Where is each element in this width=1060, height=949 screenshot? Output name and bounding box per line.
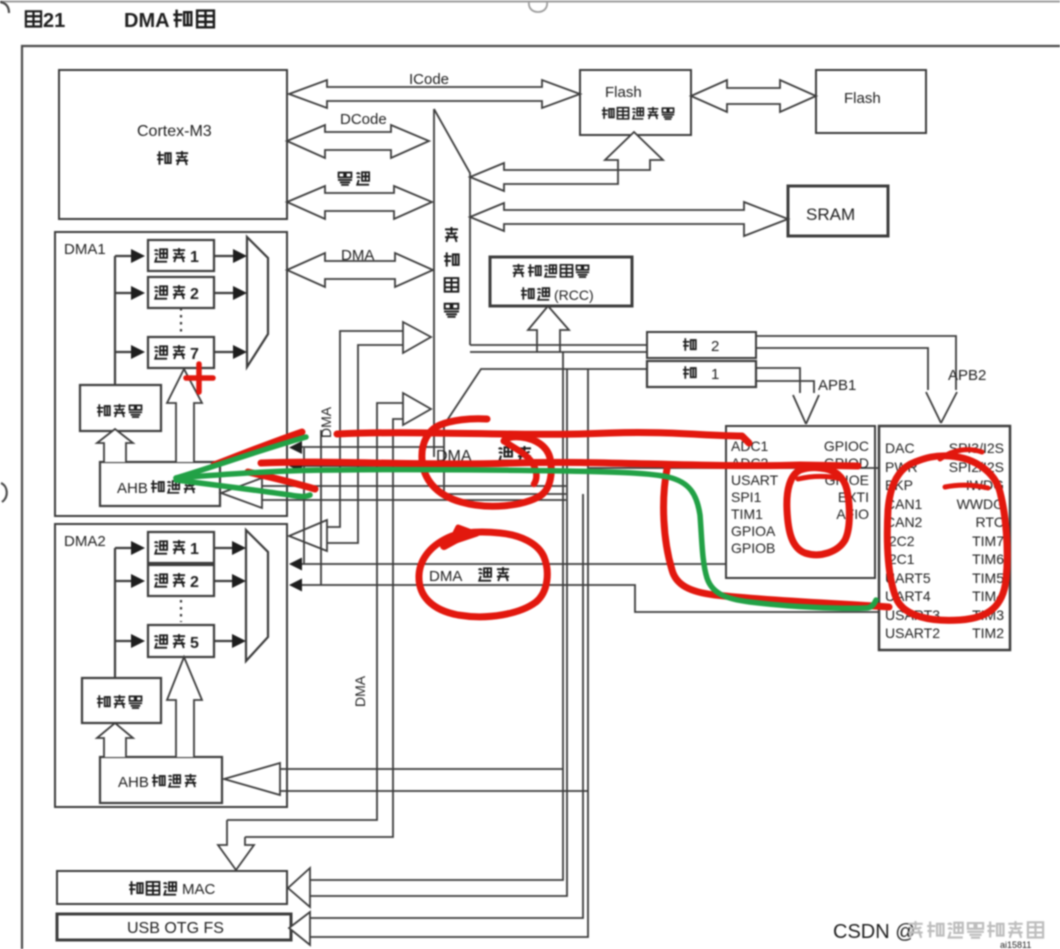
svg-text:TIM2: TIM2: [972, 625, 1004, 641]
arrow busmatrix to SRAM double: [470, 202, 788, 236]
fuweihesizhong (reset and clock): [513, 264, 524, 277]
arrow down into Ethernet MAC: [218, 820, 254, 870]
svg-text:2: 2: [190, 574, 199, 591]
zongxianjuzhen vertical (bus matrix): [445, 227, 458, 242]
yitaiwang (ethernet): [129, 881, 143, 894]
svg-text:1: 1: [190, 249, 199, 266]
red C3 dash: [798, 476, 842, 479]
title kuangtu: [173, 10, 191, 28]
cropped top border line: [0, 1, 1060, 3]
arrowhead into USB OTG FS: [289, 912, 310, 945]
red thick line R1: [337, 433, 749, 443]
svg-text:DMA: DMA: [318, 406, 334, 438]
peripheral box2 texts: [885, 440, 1004, 641]
bridge1 elbow APB1: [756, 368, 819, 424]
svg-text:TIM6: TIM6: [972, 551, 1004, 567]
arrow tri ch7 in: [131, 345, 145, 359]
arrowhead into Ethernet MAC: [288, 868, 310, 907]
AHB slave2 stems: [280, 769, 588, 791]
box arbiter2: [82, 678, 161, 723]
svg-text:WWDG: WWDG: [957, 496, 1004, 512]
DMA1 internals: [80, 237, 268, 506]
svg-text:7: 7: [190, 346, 199, 363]
red circle C2: [419, 532, 547, 617]
vertical V611 to USB: [310, 494, 583, 918]
hexin (core): [157, 151, 171, 164]
feed lines DMA2: [115, 548, 131, 678]
arrow tri ch2 out: [233, 286, 247, 300]
channel out lines2: [214, 548, 232, 641]
DMA request band1: [444, 369, 647, 494]
arrow tri ch5 in: [131, 634, 145, 648]
pairB system bus to ethernet arrow: [227, 403, 403, 837]
svg-text:APB2: APB2: [948, 367, 986, 384]
DMA request 2 glyphs: [479, 568, 491, 580]
DMA2 internals: [82, 530, 268, 803]
arrow tri req2 DMA2: [289, 579, 302, 592]
tongdao1: [155, 249, 167, 261]
zhongcaiqi2: [97, 695, 110, 708]
arrow up to arbiter2: [97, 723, 133, 757]
arrow up to arbiter1: [97, 429, 133, 462]
svg-text:DMA2: DMA2: [64, 533, 106, 550]
arrow FlashIF-Flash double: [691, 80, 816, 112]
arrow System double: [287, 186, 432, 219]
green long line: [176, 470, 876, 609]
green fork upper: [176, 437, 306, 478]
svg-text:USART2: USART2: [885, 625, 940, 641]
svg-text:USART: USART: [731, 472, 779, 488]
channel out lines: [214, 256, 233, 352]
box bridge2: [647, 332, 756, 358]
arrowhead system-bus into busmatrix: [403, 393, 431, 425]
kongzhi: [521, 287, 534, 300]
request lines right of band: [566, 435, 879, 468]
arrow tri ch2 in: [131, 286, 145, 300]
arrow tri ch7 out: [233, 345, 247, 359]
arrow tri ch1 in: [131, 249, 145, 263]
box channel2b: [148, 565, 214, 596]
svg-text:AHB: AHB: [118, 774, 149, 791]
box AHB slave 2: [100, 757, 222, 803]
box channel5: [148, 625, 214, 657]
arrow tri ch1b in: [131, 541, 145, 555]
svg-text:Flash: Flash: [844, 90, 881, 107]
svg-text:AHB: AHB: [117, 480, 148, 497]
box APB1 peripherals: [726, 426, 875, 578]
svg-text:2: 2: [711, 338, 719, 355]
svg-text:GPIOC: GPIOC: [824, 438, 869, 454]
peripheral box1 texts: [731, 438, 869, 556]
box Flash interface controller: [580, 70, 691, 135]
arrow tri ch1 out: [233, 249, 247, 263]
title tu21: [26, 11, 41, 26]
pairA DMA2 master bus: [327, 331, 403, 543]
qiao2: [683, 338, 696, 351]
svg-text:DMA: DMA: [352, 675, 368, 707]
vertical V586 to ethernet: [310, 369, 588, 937]
svg-text:DMA: DMA: [341, 247, 374, 264]
request lines DMA2: [302, 564, 879, 612]
svg-text:GPIOB: GPIOB: [731, 540, 775, 556]
bus matrix band: [434, 109, 647, 457]
tongdao2: [155, 286, 167, 298]
svg-text:SPI1: SPI1: [731, 489, 762, 505]
svg-text:MAC: MAC: [182, 881, 216, 898]
box Ethernet MAC: [57, 871, 287, 904]
svg-text:Cortex-M3: Cortex-M3: [137, 123, 212, 140]
svg-text:GPIOA: GPIOA: [731, 523, 776, 539]
arrow up to RCC: [528, 306, 569, 352]
tongdao1b: [155, 541, 167, 553]
arrowhead DMA2-master into busmatrix: [403, 322, 431, 353]
box arbiter1: [80, 385, 161, 431]
arrow tri ch2b out: [232, 574, 246, 588]
dotted divider2: [180, 600, 182, 622]
svg-text:21: 21: [43, 10, 65, 32]
red descending to box2: [664, 469, 889, 607]
svg-text:APB1: APB1: [818, 377, 856, 394]
arrowhead into DMA2 top: [289, 520, 327, 551]
AHB slave1 stems: [262, 486, 566, 500]
red circle C1: [422, 419, 551, 507]
arrow tri req2 DMA1: [289, 460, 302, 473]
red diag down: [248, 472, 315, 489]
xitong (system): [338, 173, 352, 185]
watermark: [833, 921, 1043, 949]
red plus sign: [186, 364, 213, 392]
arrow DMA double: [287, 253, 433, 287]
red circle C3 in box1: [787, 468, 850, 555]
box channel1b: [148, 532, 214, 563]
svg-text:5: 5: [190, 635, 199, 652]
tongdao5: [155, 635, 167, 647]
pairC verticals: [304, 430, 321, 585]
arrowhead into AHB slave1: [221, 478, 262, 508]
arrow ICode double: [289, 80, 580, 108]
dotted divider: [180, 308, 182, 334]
svg-text:DAC: DAC: [885, 440, 915, 456]
DMA request 1 glyphs: [499, 447, 512, 460]
box AHB slave 1: [100, 462, 220, 506]
svg-text:TIM1: TIM1: [731, 506, 763, 522]
top circle marker: [529, 1, 547, 12]
box DMA1: [55, 232, 287, 516]
arrow tri req1 DMA1: [289, 441, 302, 454]
svg-text:USB OTG FS: USB OTG FS: [127, 920, 224, 937]
svg-text:1: 1: [711, 366, 719, 383]
svg-text:ICode: ICode: [409, 71, 449, 88]
svg-text:TIM7: TIM7: [972, 533, 1004, 549]
box channel2: [148, 277, 214, 308]
funnel2: [246, 530, 268, 661]
box USB OTG FS: [57, 914, 291, 940]
svg-text:Flash: Flash: [605, 84, 642, 101]
red line R2: [261, 462, 858, 466]
green fork lower: [176, 480, 310, 497]
red C4 hooks: [940, 450, 988, 488]
svg-text:ai15811: ai15811: [1000, 940, 1031, 949]
svg-text:2: 2: [190, 286, 199, 303]
arrow up to channel5: [167, 657, 202, 757]
svg-text:EXTI: EXTI: [838, 489, 869, 505]
svg-text:CSDN @: CSDN @: [833, 921, 916, 943]
tongdao7: [155, 346, 167, 358]
svg-text:DMA: DMA: [124, 10, 170, 32]
svg-text:SRAM: SRAM: [806, 205, 855, 224]
box Cortex-M3: [59, 70, 287, 219]
box channel7: [148, 337, 214, 368]
svg-text:DCode: DCode: [340, 111, 387, 128]
red C2 arrow: [444, 534, 466, 546]
arrow up to channel7: [167, 369, 202, 462]
qiao1: [683, 366, 696, 379]
box Flash: [816, 70, 926, 133]
red C1 inner hook: [504, 441, 536, 484]
tongdao2b: [155, 574, 167, 586]
arrow tri req1 DMA2: [289, 558, 302, 571]
funnel1: [247, 237, 268, 367]
svg-text:TIM5: TIM5: [972, 570, 1004, 586]
box channel1: [148, 240, 214, 271]
svg-text:RTC: RTC: [975, 514, 1004, 530]
arrow tri ch2b in: [131, 574, 145, 588]
svg-text:DMA1: DMA1: [64, 241, 106, 258]
arrow DCode double: [287, 125, 429, 158]
request lines DMA1 left: [302, 447, 444, 466]
box APB2 peripherals: [879, 426, 1010, 650]
red C2 arrowhead: [450, 527, 477, 543]
svg-text:1: 1: [190, 541, 199, 558]
arrow busmatrix to Flash interface (elbow up): [470, 132, 663, 191]
arrow tri ch5 out: [232, 634, 246, 648]
arrow tri ch1b out: [232, 541, 246, 555]
jiekoukongzhiqi (interface controller): [602, 107, 614, 119]
arrowhead into AHB slave2: [224, 763, 280, 795]
red circle C4 in box2: [887, 456, 1007, 621]
red diag up: [214, 432, 302, 465]
box DMA2: [55, 524, 287, 807]
box bridge1: [647, 361, 756, 387]
vertical V563 to ethernet: [310, 352, 563, 880]
svg-text:(RCC): (RCC): [554, 287, 594, 303]
svg-text:DMA: DMA: [429, 568, 462, 585]
box RCC: [490, 257, 632, 306]
bridge2 elbow APB2: [756, 336, 957, 423]
box SRAM: [788, 186, 888, 236]
feed lines DMA1: [115, 256, 131, 385]
zhongcaiqi1 (arbiter): [97, 404, 110, 417]
